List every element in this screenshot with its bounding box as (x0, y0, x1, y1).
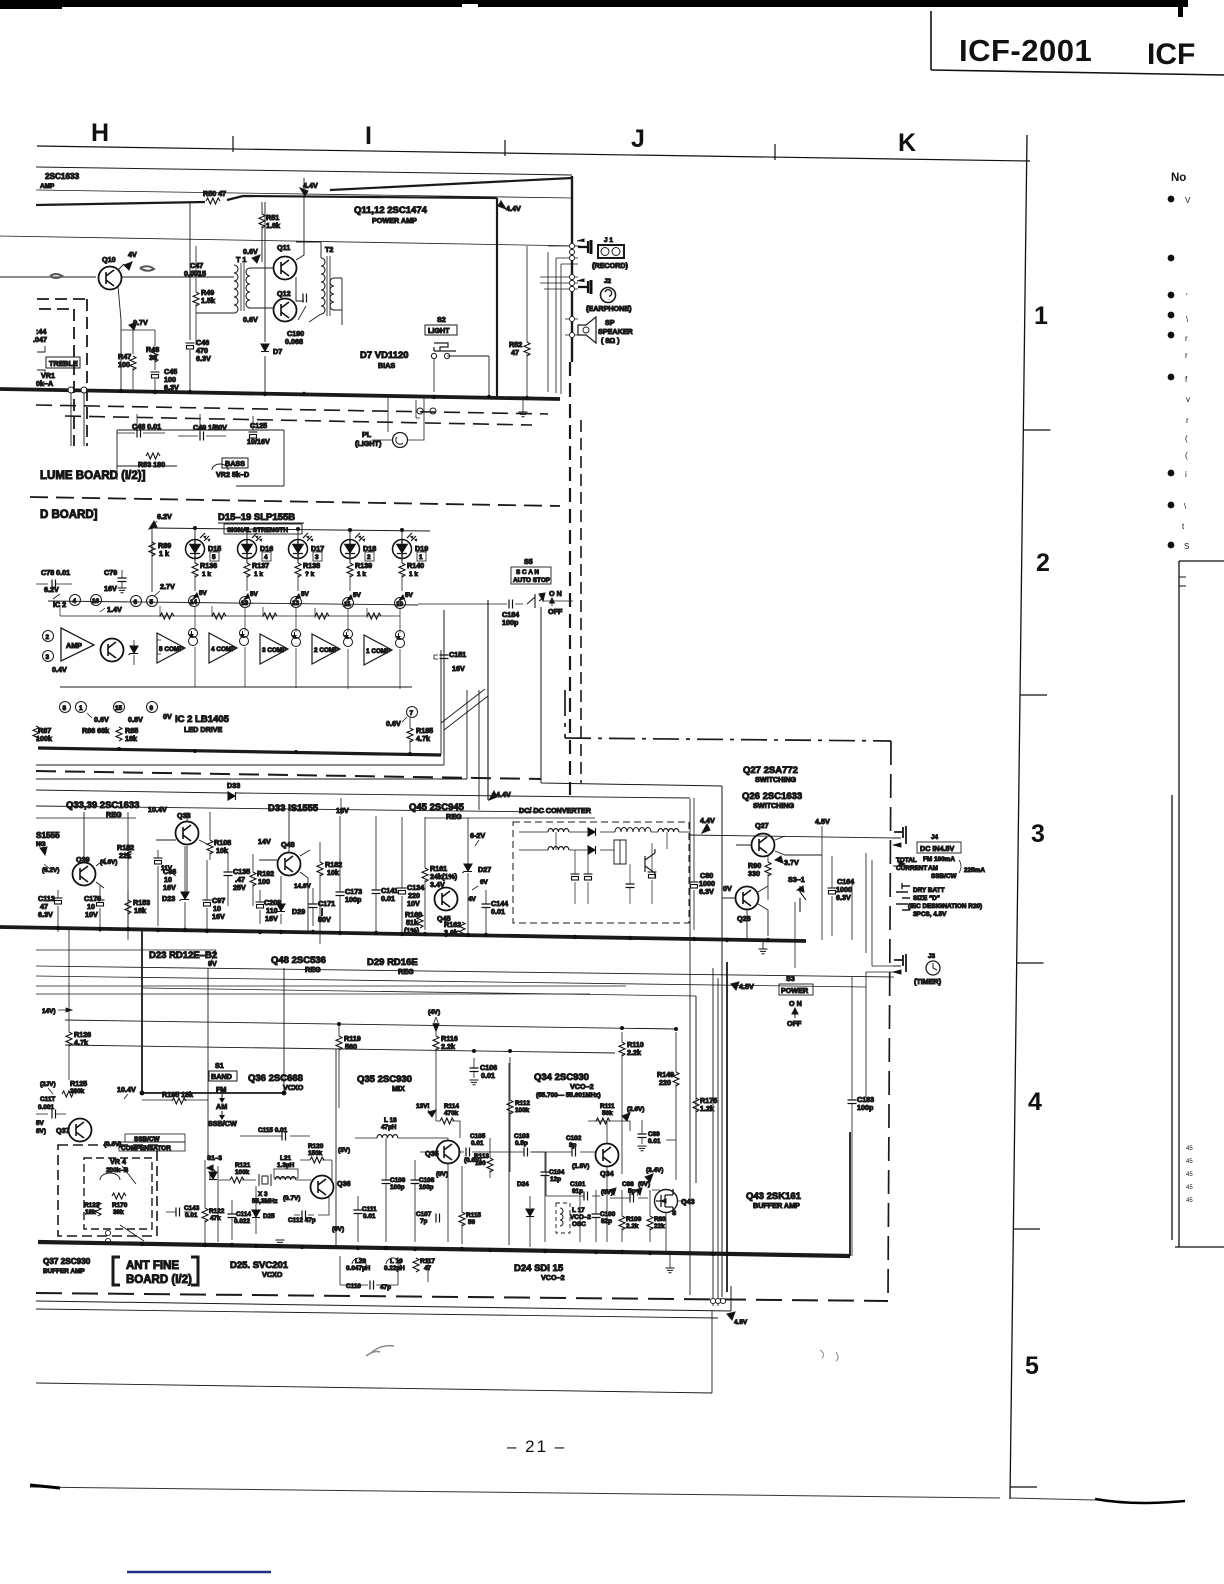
transistor Q39 (73, 863, 96, 886)
svg-text:0.01: 0.01 (491, 907, 505, 916)
svg-text:0.7V: 0.7V (133, 318, 148, 327)
svg-text:4V: 4V (128, 250, 137, 259)
svg-text:4: 4 (1028, 1088, 1042, 1116)
svg-text:S: S (672, 1210, 677, 1217)
svg-text:BIAS: BIAS (378, 361, 395, 370)
svg-text:470k: 470k (444, 1110, 459, 1117)
coil out (658, 829, 679, 832)
junction dots on bus (119, 389, 529, 400)
svg-text:2.2k: 2.2k (441, 1042, 455, 1051)
svg-text:f: f (1185, 375, 1188, 384)
svg-text:2.2k: 2.2k (626, 1223, 639, 1230)
svg-text:FM 190mA: FM 190mA (923, 856, 955, 863)
bottom rectangle line (36, 1311, 712, 1393)
connector J1 (577, 239, 591, 254)
svg-text:R115: R115 (466, 1212, 481, 1219)
battery DRY BATT (896, 883, 910, 910)
svg-text:D27: D27 (478, 865, 491, 874)
resistor R89 1k (149, 542, 155, 556)
line below bus (36, 764, 444, 766)
svg-text:R111: R111 (600, 1103, 615, 1110)
svg-text:15: 15 (115, 705, 123, 712)
heavy bus row3 (0, 927, 806, 941)
current source 3 (292, 630, 301, 647)
transistor Q35 (437, 1141, 460, 1164)
svg-text:6.3V: 6.3V (196, 354, 211, 363)
svg-text:100k: 100k (515, 1107, 530, 1114)
svg-text:C103: C103 (514, 1133, 530, 1140)
resistor R52 47 (526, 246, 528, 396)
svg-text:14: 14 (190, 599, 198, 606)
resistor R119 560 (336, 1036, 342, 1050)
svg-text:100p: 100p (857, 1103, 874, 1112)
svg-text:S5: S5 (524, 557, 533, 566)
svg-text:1: 1 (1034, 302, 1048, 330)
volume board inner box (117, 430, 284, 486)
capacitor C151 16V (443, 610, 445, 755)
svg-text:0.4V: 0.4V (52, 665, 67, 674)
svg-text:R113: R113 (474, 1153, 489, 1160)
column tick J-K (774, 144, 776, 160)
svg-text:4.4V: 4.4V (496, 790, 511, 799)
svg-text:Q36: Q36 (337, 1179, 351, 1188)
coil row2 (548, 847, 569, 850)
svg-text:(2.6V): (2.6V) (627, 1106, 644, 1113)
svg-text:2.2k: 2.2k (627, 1048, 641, 1057)
rail row4 b (65, 1045, 615, 1053)
svg-text:4 COMP: 4 COMP (211, 646, 236, 653)
connector J3 (894, 954, 906, 972)
wire volume feed verticals (71, 393, 84, 446)
svg-text:45: 45 (1186, 1146, 1193, 1152)
svg-text:C99: C99 (648, 1131, 660, 1138)
open junctions bottom (710, 1298, 725, 1303)
svg-text:BASS: BASS (225, 459, 245, 468)
svg-text:I: I (365, 122, 372, 150)
svg-text:(4.6V): (4.6V) (100, 859, 117, 866)
wire down pair left (36, 930, 626, 1026)
solid bottom line 2 (36, 1309, 718, 1318)
wire bus drop to C46 (189, 203, 191, 340)
svg-text:(0.7V): (0.7V) (283, 1195, 300, 1202)
resistor R90 330 (765, 862, 771, 876)
svg-text:Q33,39 2SC1633: Q33,39 2SC1633 (66, 800, 139, 811)
diode D7 (264, 202, 266, 392)
svg-text:100p: 100p (419, 1184, 434, 1191)
svg-text:C101: C101 (570, 1181, 586, 1188)
svg-text:\: \ (1184, 502, 1187, 511)
svg-text:6.2V: 6.2V (157, 512, 172, 521)
resistor R126 4.7k (66, 1032, 72, 1046)
wires battery/J3 column (852, 838, 894, 1098)
resistor R136 1k (194, 555, 196, 563)
svg-text:C108: C108 (419, 1177, 435, 1184)
pin 1 (76, 702, 87, 713)
label ANT FINE BOARD (1/2) (113, 1257, 120, 1285)
wire long input (0, 236, 580, 246)
svg-text:(EARPHONE): (EARPHONE) (586, 304, 632, 313)
svg-text:r: r (1185, 334, 1188, 343)
svg-text:6: 6 (134, 599, 138, 606)
pin 14 (189, 596, 200, 607)
svg-text:D24: D24 (517, 1181, 529, 1188)
inner boundary corner (541, 607, 722, 1297)
svg-text:C110: C110 (346, 1283, 361, 1290)
svg-text:SWITCHING: SWITCHING (755, 775, 797, 784)
svg-text:R80: R80 (654, 1216, 666, 1223)
svg-text:VCXO: VCXO (262, 1270, 283, 1279)
svg-text:C151: C151 (449, 650, 466, 659)
resistor R192 100 (250, 872, 256, 886)
resistor R49 1.5k (195, 288, 197, 312)
svg-text:O N: O N (789, 999, 802, 1008)
svg-text:C104: C104 (549, 1169, 565, 1176)
svg-text:SWITCHING: SWITCHING (753, 801, 795, 810)
svg-text:R86 68k: R86 68k (82, 726, 109, 735)
svg-text:R53 180: R53 180 (138, 460, 165, 469)
svg-text:No: No (1171, 172, 1186, 184)
svg-text:R195 18k: R195 18k (162, 1090, 193, 1099)
svg-text:5V: 5V (405, 592, 414, 599)
svg-text:5V: 5V (36, 1120, 45, 1127)
svg-text:OSC: OSC (572, 1221, 586, 1228)
svg-text:Q11,12 2SC1474: Q11,12 2SC1474 (354, 205, 428, 216)
wire Q26 down (746, 910, 748, 940)
note text fragments cut by page edge (1182, 196, 1191, 551)
svg-text:(0V): (0V) (638, 1181, 650, 1188)
resistor R153 18k (125, 900, 131, 914)
right zone divider vertical (1010, 135, 1027, 1499)
svg-text:r: r (1186, 416, 1189, 425)
bottom scan lines (30, 1487, 1000, 1498)
wire S5 to edge (488, 601, 573, 604)
svg-text:0.6V: 0.6V (243, 315, 258, 324)
resistor R116 2.2k (433, 1036, 439, 1050)
IC bottom rail (60, 686, 412, 688)
wire mid line (36, 950, 216, 964)
svg-text:91p: 91p (572, 1188, 583, 1195)
svg-text:LIGHT: LIGHT (428, 326, 450, 335)
resistor R108 10k (207, 840, 213, 854)
zone tick 4/5 (1013, 1228, 1040, 1230)
svg-text:4.4V: 4.4V (303, 181, 318, 190)
vertical wire x284 (283, 968, 285, 1093)
svg-text:VR2 5k–D: VR2 5k–D (216, 470, 249, 479)
svg-text:1.4V: 1.4V (107, 605, 122, 614)
capacitor C46 470 6.3V (186, 343, 195, 349)
transistor dcdc (645, 849, 655, 877)
svg-text:t: t (1182, 522, 1185, 531)
svg-text:100: 100 (258, 877, 270, 886)
svg-text:C98: C98 (622, 1181, 634, 1188)
svg-text:R120: R120 (308, 1143, 324, 1150)
resistor R175 1.2k (693, 1098, 699, 1112)
svg-text:14V: 14V (258, 837, 271, 846)
svg-text:330k: 330k (70, 1088, 85, 1095)
svg-text:100k: 100k (235, 1169, 250, 1176)
line below 2 (36, 690, 467, 779)
zener in IC (129, 646, 139, 655)
pin 10 (395, 598, 406, 609)
svg-text:1: 1 (419, 554, 423, 561)
svg-text:10/16V: 10/16V (247, 437, 270, 446)
resistor R50 47 (206, 198, 220, 204)
capacitor C45 100 6.3V (151, 372, 160, 378)
svg-text:10V: 10V (85, 910, 98, 919)
resistor R51 1.8k (261, 202, 263, 262)
wire vertical x509 (508, 1063, 510, 1245)
dashed line below bus A (36, 405, 548, 414)
svg-text:C115 0.01: C115 0.01 (258, 1127, 288, 1134)
ground q43 (666, 1268, 675, 1273)
capacitor C113 47 6.3V (54, 898, 63, 904)
wire right edge pair up (441, 610, 444, 765)
pot TREBLE VR1 (37, 346, 45, 375)
svg-text:DC IN4.5V: DC IN4.5V (920, 844, 955, 853)
heavy vertical border right (571, 176, 573, 362)
svg-text:1.2k: 1.2k (700, 1104, 714, 1113)
svg-text:16V: 16V (163, 883, 176, 892)
svg-text:225mA: 225mA (964, 867, 985, 874)
wire LED tops to rail (195, 528, 402, 540)
comparator 3COMP (260, 634, 288, 664)
svg-text:K: K (898, 129, 916, 157)
wire 6.2V LED rail (152, 528, 430, 531)
svg-text:0.0015: 0.0015 (184, 269, 206, 278)
LED D19 (393, 533, 418, 559)
svg-text:ANT FINE: ANT FINE (126, 1260, 179, 1272)
svg-text:2: 2 (46, 634, 50, 641)
dashed board bottom (30, 497, 560, 506)
svg-text:0.01: 0.01 (471, 1140, 484, 1147)
svg-text:D23 RD12E–B2: D23 RD12E–B2 (149, 950, 217, 961)
svg-text:14.6V: 14.6V (294, 883, 311, 890)
svg-text:5: 5 (150, 599, 154, 606)
svg-text:v: v (1186, 395, 1190, 404)
svg-text:4.5V: 4.5V (734, 1319, 748, 1326)
svg-text:R139: R139 (355, 561, 372, 570)
svg-text:D7: D7 (273, 347, 282, 356)
inductor L17 box dashed (556, 1203, 570, 1233)
svg-text:0.01: 0.01 (481, 1071, 495, 1080)
svg-text:14V): 14V) (42, 1008, 56, 1015)
svg-text:C114: C114 (236, 1211, 251, 1218)
svg-text:R109: R109 (626, 1216, 642, 1223)
LED D17 (289, 533, 314, 559)
svg-text:4.5V: 4.5V (815, 817, 830, 826)
svg-text:Q37: Q37 (56, 1126, 70, 1135)
pin 5 (147, 596, 158, 607)
svg-text:R137: R137 (252, 561, 269, 570)
bus junction dots (117, 747, 412, 756)
capacitor C134 220 10V (398, 888, 407, 894)
top scan bar (0, 0, 62, 9)
svg-text:POWER AMP: POWER AMP (372, 216, 417, 225)
amp triangle (61, 628, 94, 661)
capacitor C171 1 50V (309, 904, 318, 908)
svg-text:4V: 4V (468, 896, 477, 903)
svg-text:0.047µH: 0.047µH (346, 1265, 371, 1272)
svg-text:4.4V: 4.4V (700, 816, 715, 825)
resistor R53 180 (146, 453, 160, 459)
svg-text:C143: C143 (184, 1205, 200, 1212)
svg-text:2: 2 (1036, 549, 1050, 577)
svg-text:C102: C102 (566, 1135, 582, 1142)
svg-text:1 k: 1 k (409, 571, 418, 578)
SSB/CW COMPENSATOR (125, 1134, 185, 1142)
svg-text:S1555: S1555 (36, 831, 60, 840)
smudges (366, 1346, 394, 1356)
svg-text:(TIMER): (TIMER) (914, 977, 942, 986)
svg-text:C125: C125 (250, 421, 267, 430)
svg-text:Q10: Q10 (102, 255, 116, 264)
svg-text:SP: SP (605, 318, 615, 327)
wire loop under bus (340, 1256, 428, 1285)
current source 1 (396, 631, 405, 648)
svg-text:16V: 16V (265, 914, 278, 923)
svg-text:REG: REG (446, 812, 462, 821)
resistor R125 330k (62, 1091, 76, 1097)
ground x3 (276, 1240, 285, 1245)
svg-text:0.01: 0.01 (381, 894, 395, 903)
svg-text:Q26: Q26 (737, 914, 751, 923)
svg-text:AUTO STOP: AUTO STOP (513, 577, 551, 584)
wires Q39/Q33/Q48 (84, 812, 310, 932)
wire 4.4V bus top (36, 196, 497, 205)
wire corner x696 (142, 988, 696, 1183)
capacitor C108 100p (411, 1180, 420, 1184)
dashed line below bus B (65, 416, 532, 425)
svg-text:Q37 2SC930: Q37 2SC930 (43, 1257, 91, 1266)
node 0.6V top arrow (252, 255, 260, 263)
capacitor C141 0.01 (372, 890, 381, 894)
svg-text:R125: R125 (70, 1079, 87, 1088)
pin 8 (60, 702, 71, 713)
svg-text:(3V): (3V) (338, 1147, 350, 1154)
svg-text:LUME BOARD (I/2)]: LUME BOARD (I/2)] (40, 470, 146, 482)
svg-text:C78 0.01: C78 0.01 (41, 568, 70, 577)
svg-text:PL: PL (362, 430, 372, 439)
svg-text:5V: 5V (199, 590, 208, 597)
svg-text:10k: 10k (216, 846, 228, 855)
speaker SP 8ohm (578, 317, 596, 343)
capacitor C209 110 16V (256, 902, 265, 908)
boundary dashed vertical right (888, 741, 891, 1298)
svg-text:100: 100 (475, 1160, 486, 1167)
boundary dash-dot right of LED board (565, 690, 891, 741)
svg-text:2: 2 (367, 554, 371, 561)
svg-text:R121: R121 (235, 1162, 251, 1169)
svg-text:2SC1633: 2SC1633 (45, 172, 80, 181)
svg-text:3.7V: 3.7V (784, 858, 799, 867)
svg-text:R136: R136 (200, 561, 217, 570)
LED D15 (186, 533, 211, 559)
svg-text:J3: J3 (928, 953, 936, 960)
svg-text:J 1: J 1 (604, 237, 613, 244)
pin 11 (343, 598, 354, 609)
resistor R160 51k(1%) (417, 914, 423, 928)
svg-text:OFF: OFF (548, 607, 563, 616)
transistor Q26 (736, 887, 759, 910)
line below bus 2 (36, 976, 866, 987)
svg-text:R123: R123 (84, 1202, 100, 1209)
pin 2 (43, 631, 54, 642)
capacitor dcdc c (648, 872, 657, 878)
wire dcdc inner drops (556, 832, 667, 904)
svg-text:S2: S2 (437, 315, 446, 324)
svg-text:8: 8 (63, 705, 67, 712)
transistor Q10 (99, 267, 122, 290)
svg-text:Q27: Q27 (755, 821, 769, 830)
node 0.7V arrow (129, 322, 137, 330)
wire Q34 cluster drops (530, 1121, 630, 1242)
resistor R140 1k (401, 555, 403, 563)
svg-text:18V: 18V (336, 806, 349, 815)
capacitor C143 0.01 (176, 1208, 180, 1217)
svg-text:SIGNAL STRENGTH: SIGNAL STRENGTH (227, 527, 288, 534)
LED D16 (238, 533, 263, 559)
svg-text:Q35: Q35 (425, 1149, 439, 1158)
resistor R139 1k (349, 555, 351, 563)
svg-text:18k: 18k (134, 906, 146, 915)
resistor R162 3.6k (459, 922, 465, 936)
resistor R138 1k (297, 555, 299, 563)
svg-text:1 k: 1 k (357, 571, 366, 578)
svg-text:D7 VD1120: D7 VD1120 (360, 350, 409, 361)
svg-text:Q39: Q39 (76, 855, 90, 864)
svg-text:6.3V: 6.3V (836, 893, 851, 902)
current source 4 (240, 629, 249, 646)
svg-text:TREBLE: TREBLE (49, 359, 78, 368)
svg-text:4: 4 (73, 598, 77, 605)
wire scan line horizontal (418, 603, 488, 605)
diode DD (209, 1172, 217, 1180)
svg-text:D15–19 SLP155B: D15–19 SLP155B (218, 512, 295, 523)
vertical wire x208 (207, 968, 209, 1160)
svg-text:POWER: POWER (781, 986, 809, 995)
svg-text:(55.700— 55.601MHz): (55.700— 55.601MHz) (536, 1092, 601, 1099)
svg-text:(6.2V): (6.2V) (42, 867, 59, 874)
svg-text:10k: 10k (327, 868, 339, 877)
resistor R112 100k (507, 1100, 513, 1114)
svg-text:6.3V: 6.3V (38, 910, 53, 919)
svg-text:7p: 7p (420, 1218, 428, 1225)
svg-text:(0V): (0V) (436, 1171, 448, 1178)
note bullets (1168, 196, 1175, 549)
svg-text:150k: 150k (308, 1150, 323, 1157)
svg-text:3: 3 (1031, 820, 1045, 848)
svg-text:(4V): (4V) (428, 1009, 440, 1016)
svg-text:FM: FM (216, 1085, 226, 1094)
svg-text:0.6V: 0.6V (386, 719, 401, 728)
svg-text:C11T: C11T (40, 1096, 55, 1103)
wire Q10 collector up (118, 264, 124, 277)
svg-text:DRY BATT: DRY BATT (913, 887, 945, 894)
svg-text:0k–A: 0k–A (36, 379, 53, 388)
svg-text:R170: R170 (112, 1202, 128, 1209)
svg-text:47k: 47k (210, 1215, 221, 1222)
svg-text:AMP: AMP (66, 641, 82, 650)
wire 0.7V node branches (121, 330, 155, 354)
svg-text:(2JV): (2JV) (40, 1081, 56, 1088)
svg-text:SIZE “D”: SIZE “D” (913, 895, 940, 902)
svg-text:25V: 25V (233, 883, 246, 892)
svg-text:AMP: AMP (40, 183, 55, 190)
capacitor C164 1000 6.3V (828, 888, 837, 894)
solid bottom line 1 (36, 1286, 731, 1311)
resistor R137 1k (246, 555, 248, 563)
svg-text:L 17: L 17 (572, 1207, 585, 1214)
